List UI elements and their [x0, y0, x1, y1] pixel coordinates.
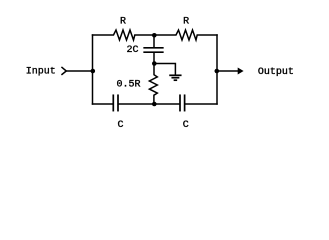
svg-text:0.5R: 0.5R: [117, 80, 141, 91]
svg-text:2C: 2C: [127, 45, 139, 56]
svg-text:Output: Output: [258, 67, 294, 78]
svg-text:R: R: [183, 17, 189, 28]
svg-text:C: C: [183, 120, 189, 131]
svg-text:R: R: [120, 17, 126, 28]
svg-text:Input: Input: [26, 67, 56, 78]
svg-text:C: C: [118, 120, 124, 131]
